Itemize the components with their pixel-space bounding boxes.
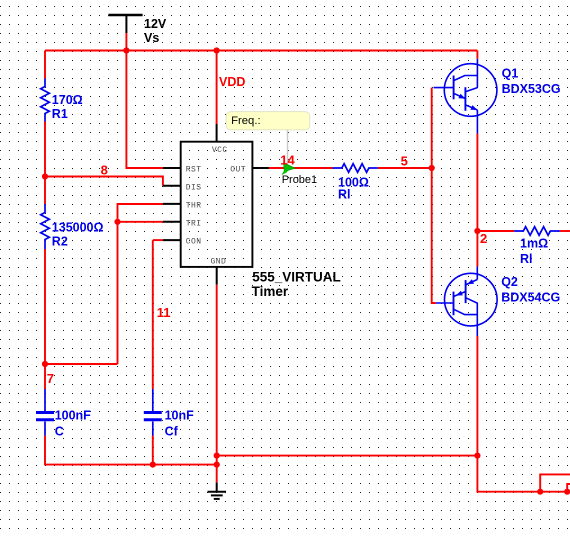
svg-text:1mΩ: 1mΩ xyxy=(520,237,548,251)
svg-text:Timer: Timer xyxy=(252,284,289,299)
svg-text:OUT: OUT xyxy=(230,165,246,174)
svg-text:5: 5 xyxy=(401,153,408,168)
svg-text:12V: 12V xyxy=(144,17,167,31)
svg-text:Cf: Cf xyxy=(165,424,179,438)
svg-text:BDX54CG: BDX54CG xyxy=(501,290,560,304)
svg-text:555_VIRTUAL: 555_VIRTUAL xyxy=(252,269,341,284)
svg-text:THR: THR xyxy=(186,202,202,211)
svg-text:10nF: 10nF xyxy=(165,409,195,423)
svg-text:Probe1: Probe1 xyxy=(282,174,317,186)
svg-text:R1: R1 xyxy=(52,107,68,121)
svg-text:Vs: Vs xyxy=(144,31,159,45)
svg-text:8: 8 xyxy=(101,162,108,177)
svg-text:C: C xyxy=(55,424,64,438)
svg-text:135000Ω: 135000Ω xyxy=(52,221,104,235)
svg-text:TRI: TRI xyxy=(186,219,202,228)
svg-text:Q2: Q2 xyxy=(501,275,518,289)
svg-text:GND: GND xyxy=(211,258,227,267)
svg-text:100nF: 100nF xyxy=(55,409,91,423)
svg-text:Rl: Rl xyxy=(520,252,533,266)
svg-text:CON: CON xyxy=(186,238,202,247)
svg-text:RST: RST xyxy=(186,165,202,174)
svg-text:R2: R2 xyxy=(52,234,68,248)
svg-text:Freq.:: Freq.: xyxy=(231,115,261,127)
svg-text:Q1: Q1 xyxy=(502,67,519,81)
svg-text:VCC: VCC xyxy=(212,146,228,155)
svg-text:170Ω: 170Ω xyxy=(52,93,83,107)
svg-text:2: 2 xyxy=(480,231,487,246)
svg-text:VDD: VDD xyxy=(219,75,245,89)
svg-text:DIS: DIS xyxy=(186,183,202,192)
svg-text:14: 14 xyxy=(280,153,295,168)
svg-text:Rl: Rl xyxy=(338,187,351,201)
svg-text:7: 7 xyxy=(47,371,54,386)
svg-text:11: 11 xyxy=(157,305,171,320)
svg-text:BDX53CG: BDX53CG xyxy=(502,82,561,96)
